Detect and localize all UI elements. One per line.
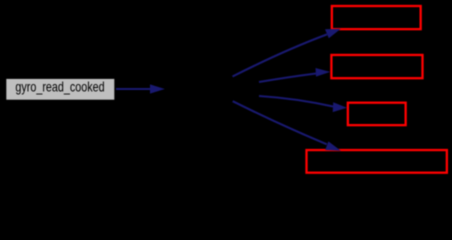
edge: hidden node -> box4 [233, 101, 341, 151]
call graph: gyro_read_cooked [0, 0, 452, 179]
edge: gyro_read_cooked -> hidden node [116, 84, 165, 93]
box3 (red) [348, 103, 406, 125]
node gyro_read_cooked (gray box) [6, 78, 114, 99]
edge: hidden node -> box1 [233, 29, 341, 77]
box1 (red) [332, 6, 421, 29]
edge: hidden node -> box2 [259, 68, 330, 82]
edge: hidden node -> box3 [259, 96, 347, 112]
box4 (red) [307, 150, 447, 173]
box2 (red) [331, 55, 422, 78]
svg-text:gyro_read_cooked: gyro_read_cooked [15, 78, 104, 94]
